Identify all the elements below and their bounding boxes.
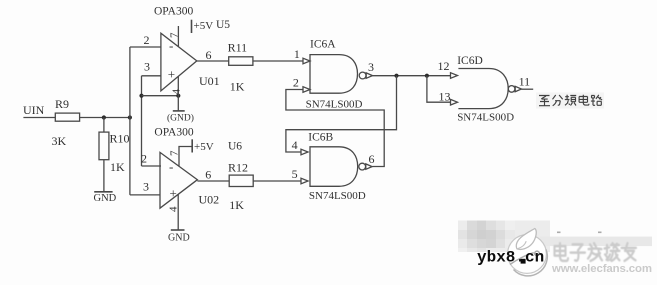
- nand gate IC6A body: [310, 55, 358, 94]
- svg-text:12: 12: [438, 59, 450, 73]
- nand gate IC6D body: [458, 69, 508, 109]
- op-amp U01 triangle: [161, 33, 197, 91]
- svg-text:OPA300: OPA300: [154, 6, 193, 18]
- svg-text:+5V: +5V: [194, 20, 214, 32]
- wire vertical to U02 pin2: [141, 76, 143, 166]
- ground bar GND U02: [171, 229, 185, 231]
- junction ref bus: [139, 94, 143, 98]
- svg-text:+5V: +5V: [194, 141, 214, 153]
- char 路: [591, 95, 602, 105]
- resistor R10: [99, 132, 109, 160]
- ground bar (GND) U01: [173, 110, 185, 112]
- svg-text:3: 3: [143, 180, 149, 194]
- svg-text:R10: R10: [110, 132, 130, 146]
- svg-text:GND: GND: [168, 233, 190, 244]
- pin arrow IC6A output: [366, 73, 372, 78]
- svg-text:2: 2: [144, 33, 150, 47]
- wire U02 output pin 6: [197, 180, 229, 182]
- svg-text:-: -: [169, 159, 173, 174]
- wire U02 pin 3: [130, 194, 160, 196]
- junction node A: [102, 115, 106, 119]
- wire IC6A out to IC6B pin4: [286, 76, 397, 152]
- ground GND under R10: [94, 191, 112, 193]
- op-amp U02 triangle: [160, 152, 197, 208]
- op-amp U02 pin 7 lead with jog: [179, 147, 192, 167]
- char 子 (watermark): [571, 244, 586, 260]
- svg-text:SN74LS00D: SN74LS00D: [306, 99, 363, 111]
- svg-text:11: 11: [519, 75, 531, 89]
- char 发 (watermark): [588, 243, 602, 261]
- svg-text:3K: 3K: [52, 134, 67, 148]
- char 电: [579, 95, 589, 105]
- svg-text:1K: 1K: [229, 198, 244, 212]
- wire U01 pin 2: [130, 46, 161, 48]
- svg-text:7: 7: [169, 150, 181, 156]
- power +5V bar U6: [191, 139, 193, 152]
- wire R10 top lead: [103, 118, 105, 133]
- svg-text:(GND): (GND): [167, 113, 194, 124]
- pin arrow IC6A pin2: [303, 87, 310, 93]
- svg-text:www.elecfans.com: www.elecfans.com: [551, 263, 652, 275]
- svg-text:1K: 1K: [110, 160, 125, 174]
- svg-text:R11: R11: [228, 41, 248, 55]
- watermark logo circle: [508, 229, 548, 276]
- watermark text 电子发烧友 drawn strokes: [555, 243, 637, 261]
- svg-text:U01: U01: [199, 74, 220, 88]
- char 分: [553, 95, 563, 106]
- wire R11 to IC6A pin1: [253, 60, 303, 62]
- svg-text:1K: 1K: [230, 80, 245, 94]
- svg-text:IC6B: IC6B: [308, 131, 333, 143]
- char 至: [539, 96, 550, 106]
- output bubble IC6B pin6: [359, 163, 366, 170]
- resistor R9: [55, 113, 79, 121]
- svg-text:U5: U5: [216, 19, 230, 31]
- svg-text:ybx8.cn: ybx8.cn: [477, 249, 544, 267]
- wire IC6A pin2 feedback: [286, 90, 384, 167]
- resistor R12: [229, 175, 253, 186]
- svg-text:+: +: [168, 67, 175, 82]
- wire to IC6D pin13: [427, 76, 450, 103]
- char 频: [565, 95, 576, 106]
- junction on input bus: [128, 115, 132, 119]
- op-amp U01 pin 4 lead: [177, 76, 179, 111]
- svg-text:-: -: [169, 38, 173, 53]
- svg-text:IC6D: IC6D: [457, 55, 483, 67]
- svg-text:2: 2: [141, 152, 147, 166]
- svg-text:R9: R9: [55, 97, 69, 111]
- pin arrow IC6D output: [515, 86, 521, 91]
- wire U01 output pin 6: [197, 60, 229, 62]
- svg-text:3: 3: [368, 60, 374, 74]
- junction to IC6D pin13: [425, 74, 429, 78]
- svg-text:6: 6: [369, 152, 375, 166]
- op-amp U02 pin 4 lead: [177, 194, 179, 230]
- wire R10 bottom lead: [103, 160, 105, 192]
- svg-text:UIN: UIN: [23, 103, 45, 117]
- wire U01 pin 3: [142, 75, 162, 77]
- wire R12 to IC6B pin5: [253, 180, 301, 182]
- pin arrow IC6D pin13: [451, 99, 458, 105]
- output bubble IC6A pin3: [359, 72, 366, 79]
- pin arrow IC6B output: [366, 164, 372, 169]
- pin arrow IC6B pin5: [301, 178, 308, 184]
- svg-text:2: 2: [293, 75, 299, 89]
- svg-text:6: 6: [206, 48, 212, 62]
- char 电 (watermark): [555, 243, 569, 261]
- svg-text:+: +: [170, 186, 177, 201]
- wire U02 pin 2: [142, 165, 162, 167]
- svg-text:SN74LS00D: SN74LS00D: [457, 111, 514, 123]
- resistor R11: [229, 57, 253, 66]
- watermark mosaic blocks: [458, 221, 652, 253]
- svg-text:4: 4: [171, 89, 183, 95]
- svg-text:U02: U02: [199, 193, 220, 207]
- wire: [80, 117, 131, 119]
- junction IC6A out: [394, 74, 398, 78]
- svg-text:OPA300: OPA300: [154, 127, 193, 139]
- svg-text:5: 5: [292, 167, 298, 181]
- pin arrow IC6A pin1: [303, 58, 310, 64]
- svg-text:1: 1: [294, 47, 300, 61]
- wire vertical bus to U01 pin2 and U02 pin3: [129, 47, 131, 195]
- svg-text:U6: U6: [228, 141, 242, 153]
- svg-text:4: 4: [292, 138, 298, 152]
- svg-text:R12: R12: [228, 161, 248, 175]
- svg-text:SN74LS00D: SN74LS00D: [309, 190, 366, 202]
- svg-text:7: 7: [169, 32, 181, 38]
- svg-text:6: 6: [205, 168, 211, 182]
- pin arrow IC6D pin12: [451, 73, 458, 79]
- svg-text:4: 4: [168, 206, 180, 212]
- svg-text:IC6A: IC6A: [310, 39, 336, 51]
- wire ref to ground tie: [142, 95, 179, 97]
- char 友 (watermark): [622, 243, 637, 261]
- power +5V bar U5: [191, 20, 193, 33]
- junction at U01 pin4: [176, 94, 180, 98]
- wire IC6A output to IC6D: [373, 75, 451, 77]
- output bubble IC6D pin11: [508, 86, 515, 93]
- nand gate IC6B body: [310, 147, 358, 187]
- label 至分频电路 (to frequency divider) drawn strokes: [536, 93, 604, 109]
- node UIN input wire: [23, 117, 55, 119]
- svg-text:GND: GND: [94, 193, 117, 204]
- pin arrow IC6B pin4: [301, 149, 308, 155]
- svg-text:13: 13: [439, 89, 451, 103]
- wire IC6D output: [521, 88, 533, 90]
- svg-text:3: 3: [144, 60, 150, 74]
- op-amp U01 pin 7 lead: [177, 26, 179, 47]
- char 烧 (watermark): [605, 243, 620, 261]
